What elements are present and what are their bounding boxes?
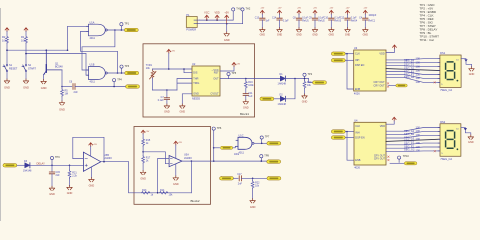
- nand gate U1B: [87, 64, 108, 84]
- test point circle TP9: [50, 156, 60, 165]
- wire R21 to gnd: [69, 178, 71, 185]
- svg-text:DSP EN: DSP EN: [355, 136, 364, 139]
- power VDD tap: [214, 11, 219, 21]
- connector P1 POWER: [186, 13, 199, 32]
- resistor R14: [160, 189, 174, 197]
- ground below R5: [59, 101, 65, 112]
- wire Q1 emitter to gnd: [43, 75, 45, 80]
- ground below Q1: [41, 80, 47, 91]
- svg-text:1N4148: 1N4148: [278, 83, 287, 86]
- wire R5 to gnd: [61, 97, 63, 101]
- ground below C11: [243, 100, 249, 110]
- ground below S1: [4, 79, 10, 90]
- svg-text:U1B: U1B: [90, 64, 95, 67]
- svg-text:TP4: TP4: [117, 78, 122, 81]
- svg-text:+5V: +5V: [178, 142, 182, 144]
- svg-text:0.1uF: 0.1uF: [351, 18, 357, 20]
- digit eight DS2: [446, 131, 459, 151]
- svg-text:+5V: +5V: [236, 63, 240, 65]
- wire U3 enable loop: [346, 53, 354, 89]
- svg-text:POWER: POWER: [186, 28, 196, 32]
- junction U1B out tp: [121, 72, 123, 74]
- capacitor C4 decoupling: [359, 8, 377, 37]
- wire divider mid: [142, 146, 144, 155]
- svg-text:+5V: +5V: [346, 8, 350, 10]
- svg-text:RefU4: RefU4: [351, 21, 358, 23]
- wire S2 to gnd: [25, 72, 27, 79]
- net label pill to gate C: [220, 146, 232, 149]
- power VCC arrow U3: [386, 45, 396, 52]
- svg-text:GND: GND: [180, 111, 186, 114]
- svg-text:7SEG_CA: 7SEG_CA: [440, 88, 452, 92]
- svg-text:100: 100: [416, 60, 421, 64]
- op-amp U5A: [169, 154, 192, 167]
- ground below U5B: [89, 178, 95, 188]
- svg-text:1N4148: 1N4148: [23, 169, 32, 172]
- net label pill X10 at U3: [389, 84, 408, 87]
- svg-text:+5V: +5V: [145, 131, 149, 133]
- wire 555 VCC pin: [220, 66, 234, 71]
- net label pill RST to U3: [331, 59, 353, 63]
- svg-text:GND: GND: [4, 86, 10, 90]
- junction base node: [61, 86, 63, 88]
- svg-text:NE555: NE555: [192, 97, 200, 101]
- junction U1A out tp: [121, 29, 123, 31]
- svg-text:100: 100: [416, 129, 421, 133]
- wire segment D dark U4: [386, 139, 440, 141]
- ground below S2: [23, 79, 29, 90]
- test point circle TP5: [227, 72, 237, 78]
- block frame Block1: [143, 44, 255, 117]
- display DS2 pin stubs: [438, 128, 440, 151]
- svg-text:GND: GND: [345, 33, 351, 36]
- svg-text:4011: 4011: [90, 81, 96, 84]
- op-amp U5B: [83, 152, 112, 171]
- wire U4 enable loop: [346, 131, 354, 161]
- junction R21 node: [69, 165, 71, 167]
- svg-text:100k: 100k: [248, 84, 254, 87]
- svg-text:GND: GND: [49, 193, 55, 196]
- test point circle on rail 1: [232, 8, 242, 21]
- svg-text:START: START: [28, 67, 36, 70]
- capacitor C10 decoupling: [324, 8, 342, 37]
- svg-text:100: 100: [416, 80, 421, 84]
- wire U1A output: [107, 29, 124, 31]
- svg-text:7SEG_CA: 7SEG_CA: [440, 157, 452, 161]
- svg-text:+5V: +5V: [363, 8, 367, 10]
- ground below R22: [250, 199, 256, 209]
- junction vcc rail: [168, 68, 170, 70]
- junction out node: [213, 160, 215, 162]
- pin x marks U4: [388, 156, 390, 161]
- net label pill CLK10 out: [390, 162, 417, 165]
- svg-text:GND: GND: [260, 33, 266, 36]
- svg-text:ENB: ENB: [355, 159, 360, 162]
- svg-text:C12: C12: [340, 18, 345, 20]
- svg-text:100: 100: [416, 72, 421, 76]
- wire node S1 horizontal: [7, 49, 68, 51]
- wire OUT to diode D1: [255, 78, 281, 80]
- wire R17 to gnd: [142, 164, 144, 171]
- svg-text:TP9: TP9: [55, 156, 60, 159]
- svg-text:INH: INH: [355, 132, 360, 135]
- svg-text:U1C: U1C: [239, 135, 244, 138]
- svg-text:ENB: ENB: [355, 88, 360, 91]
- resistor R15: [142, 138, 151, 146]
- wire D1 to node: [286, 78, 309, 80]
- resistor R17: [142, 156, 151, 164]
- junction DIS: [183, 68, 185, 70]
- svg-text:4011: 4011: [239, 151, 245, 154]
- svg-text:VCC: VCC: [204, 11, 209, 14]
- wire divider to op-amp plus: [143, 152, 169, 164]
- svg-text:100: 100: [416, 64, 421, 68]
- svg-text:+5V: +5V: [93, 144, 97, 146]
- power VCC tap: [204, 11, 209, 21]
- svg-text:2nF: 2nF: [74, 91, 79, 94]
- svg-text:100: 100: [416, 137, 421, 141]
- svg-text:GND: GND: [67, 192, 73, 195]
- svg-text:GND: GND: [312, 33, 318, 36]
- svg-text:C10: C10: [324, 18, 329, 20]
- svg-text:VDD: VDD: [380, 125, 385, 128]
- junction on TRIG wire: [113, 86, 115, 88]
- svg-text:THR: THR: [193, 77, 198, 80]
- svg-text:CLK: CLK: [355, 53, 360, 56]
- capacitor C6: [62, 81, 78, 95]
- junction Q1 collector: [46, 49, 48, 51]
- svg-text:GND: GND: [296, 33, 302, 36]
- junction U1B out feedback: [117, 72, 119, 74]
- svg-text:GND: GND: [140, 177, 146, 180]
- svg-text:0.1uF: 0.1uF: [302, 18, 308, 20]
- trimmer TVR1: [146, 64, 156, 79]
- svg-text:100: 100: [416, 68, 421, 72]
- junction node to gate A: [67, 49, 69, 51]
- svg-text:2nF: 2nF: [238, 182, 243, 185]
- wire power rail 2: [200, 23, 243, 25]
- svg-text:10k: 10k: [2, 38, 7, 42]
- svg-text:U2: U2: [192, 62, 196, 66]
- svg-text:1N4148: 1N4148: [278, 103, 287, 106]
- svg-text:4011: 4011: [90, 37, 96, 40]
- svg-text:+5V: +5V: [297, 8, 301, 10]
- net name labels segs U4: [404, 129, 415, 152]
- svg-text:10k: 10k: [21, 38, 26, 42]
- test point legend text: [420, 3, 440, 42]
- svg-text:+5V: +5V: [171, 50, 175, 52]
- power VCC arrow over R2: [5, 28, 9, 32]
- net name labels segs U3: [404, 58, 415, 79]
- svg-text:GND: GND: [302, 101, 308, 104]
- svg-text:GND: GND: [277, 33, 283, 36]
- nand gate U1A: [87, 21, 108, 39]
- capacitor C15: [49, 165, 60, 186]
- svg-text:DS2: DS2: [440, 120, 446, 124]
- svg-text:VDD: VDD: [379, 53, 384, 56]
- pin number labels DS1: [416, 57, 421, 85]
- digit eight DS1: [446, 62, 459, 82]
- wire THR TRIG pins: [177, 79, 192, 91]
- svg-text:Block2: Block2: [191, 199, 200, 203]
- capacitor C8 decoupling: [293, 8, 310, 37]
- junction OUT RC: [245, 78, 247, 80]
- switch S2: [22, 64, 36, 71]
- ground below divider: [140, 170, 146, 180]
- svg-text:RefU1: RefU1: [302, 21, 309, 23]
- net label pill CLK to U3: [331, 52, 353, 56]
- net label pill X10: [267, 160, 281, 164]
- pin number labels DS2: [416, 125, 421, 152]
- junction diode node: [294, 78, 296, 80]
- wire C6 to TRIG pill: [75, 86, 126, 88]
- wire D3 to op-amp: [30, 164, 84, 166]
- power VCC arrow U4: [386, 117, 396, 124]
- net label pill TRIG: [126, 85, 140, 89]
- svg-text:TP5: TP5: [232, 72, 237, 75]
- svg-text:100: 100: [416, 125, 421, 129]
- test point circle TP10: [398, 155, 410, 162]
- svg-text:100: 100: [416, 145, 421, 149]
- wire U1B output: [107, 72, 124, 74]
- svg-text:GND: GND: [363, 33, 369, 36]
- transistor Q1: [44, 50, 64, 74]
- resistor R10: [303, 78, 312, 89]
- wire U5B output: [101, 161, 129, 163]
- power VCC arrow at 555: [232, 63, 241, 67]
- svg-text:GND: GND: [164, 111, 170, 114]
- svg-text:R13: R13: [142, 189, 147, 192]
- ic U4 4026 counter: [354, 119, 386, 170]
- svg-text:R14: R14: [160, 189, 165, 192]
- net label pill DELAY in: [3, 164, 17, 168]
- wire 555 OUT: [220, 78, 255, 80]
- svg-text:INH: INH: [355, 59, 360, 62]
- test point circle TP8: [260, 154, 270, 162]
- capacitor C17 series: [237, 173, 242, 186]
- svg-text:DSP EN: DSP EN: [355, 64, 364, 67]
- svg-text:TP6: TP6: [217, 127, 222, 130]
- wire Q1 base to node: [61, 70, 63, 87]
- svg-text:RefU2: RefU2: [318, 21, 325, 23]
- svg-text:C17: C17: [237, 173, 242, 176]
- svg-text:100: 100: [416, 76, 421, 80]
- ground below C7: [164, 104, 170, 114]
- svg-text:+5V: +5V: [260, 8, 264, 10]
- wire D2 up to node: [286, 79, 296, 99]
- net label pill BL: [267, 142, 281, 146]
- net label pill Q: [124, 28, 138, 32]
- resistor R22: [251, 178, 260, 188]
- svg-text:+5V: +5V: [224, 11, 229, 14]
- svg-text:TP3: TP3: [125, 65, 130, 68]
- wire step row: [234, 177, 239, 179]
- wire 555 GND pin: [182, 94, 192, 104]
- svg-text:TP1: TP1: [124, 22, 129, 25]
- test point circle TP7: [260, 136, 270, 144]
- svg-text:1uF: 1uF: [248, 95, 253, 98]
- test point circle TH1: [120, 22, 130, 30]
- wire R22 to gnd: [252, 189, 254, 199]
- svg-text:TH2: TH2: [246, 8, 251, 11]
- net label pill STEP left: [220, 177, 234, 181]
- display DS1 pin stubs: [438, 59, 440, 83]
- ic U2 NE555: [192, 62, 220, 100]
- junction U1A out feedback: [114, 29, 116, 31]
- net label pill QB: [125, 71, 139, 75]
- svg-text:4026: 4026: [354, 166, 360, 170]
- svg-text:CVOLT: CVOLT: [211, 93, 220, 96]
- capacitor C7 timing: [158, 90, 170, 104]
- svg-text:GND: GND: [23, 86, 29, 90]
- capacitor C12 decoupling: [340, 8, 358, 37]
- svg-text:DELAY: DELAY: [37, 162, 46, 166]
- junction S2 node: [25, 53, 27, 55]
- svg-text:100: 100: [416, 149, 421, 153]
- switch S1: [3, 64, 18, 71]
- wire U5B to gnd: [90, 167, 92, 178]
- net label pill CLK10 to U4: [331, 130, 354, 134]
- svg-text:BC548: BC548: [55, 66, 63, 69]
- wire RC node horizontal: [153, 89, 178, 91]
- svg-text:1000pF: 1000pF: [369, 15, 377, 17]
- resistor R21: [68, 165, 78, 178]
- svg-text:RST: RST: [214, 72, 219, 75]
- power VCC arrow over R1: [24, 28, 28, 32]
- svg-text:RefC1: RefC1: [369, 21, 376, 23]
- svg-text:100: 100: [416, 133, 421, 137]
- power VCC arrow U5A: [174, 141, 183, 158]
- ground below R21: [67, 186, 73, 196]
- svg-text:1M: 1M: [65, 93, 68, 96]
- ground below power rail: [224, 24, 230, 43]
- left page edge line: [0, 8, 2, 221]
- junction U5B out: [103, 161, 105, 163]
- wire U4 segment outputs: [386, 128, 440, 152]
- svg-text:GND: GND: [41, 86, 47, 90]
- nand gate U1C: [236, 135, 254, 155]
- svg-text:SEG_G2: SEG_G2: [404, 148, 415, 152]
- svg-text:Block1: Block1: [240, 112, 249, 116]
- wire pill to diode D2: [274, 98, 281, 100]
- ground below 555: [180, 104, 186, 114]
- svg-text:0.1uF: 0.1uF: [158, 100, 164, 102]
- ic U3 4026 counter: [354, 46, 386, 95]
- capacitor C14 decoupling: [272, 8, 289, 37]
- svg-text:DS1: DS1: [440, 51, 446, 55]
- test point circle TP4: [113, 78, 123, 86]
- svg-text:OUT: OUT: [213, 77, 219, 80]
- wire R10 to gnd: [304, 89, 306, 94]
- svg-text:CRY OUT: CRY OUT: [374, 158, 386, 161]
- net label pill CLK: [313, 81, 327, 85]
- wire to CLK pill: [309, 79, 313, 83]
- svg-text:GND: GND: [243, 106, 249, 109]
- ground below U5A: [173, 176, 179, 186]
- block frame Block2: [134, 127, 211, 205]
- diode D2: [278, 94, 287, 106]
- resistor R13: [142, 189, 154, 197]
- svg-text:TP2: TP2: [308, 73, 313, 76]
- display DS2 power wires: [461, 128, 471, 136]
- svg-text:C13: C13: [255, 18, 260, 20]
- wire DIS pin: [184, 69, 192, 73]
- ground DS2: [468, 135, 474, 144]
- svg-text:VDD: VDD: [214, 11, 219, 14]
- wire U5A output exits block: [182, 160, 267, 162]
- svg-text:U1A: U1A: [90, 21, 95, 24]
- display DS1 power wires: [461, 59, 471, 67]
- wire trimmer down: [152, 78, 154, 90]
- svg-text:CLK: CLK: [355, 125, 360, 128]
- test point circle TP: [303, 73, 313, 79]
- svg-text:RefU3: RefU3: [335, 21, 342, 23]
- resistor R16: [244, 79, 254, 89]
- svg-text:2nF: 2nF: [56, 174, 61, 177]
- test point circle TP6: [212, 127, 222, 161]
- capacitor C9 decoupling: [309, 8, 326, 37]
- diode D3: [23, 160, 32, 172]
- svg-text:TP10: TP10: [403, 155, 410, 158]
- wire to gate B input 2: [86, 54, 89, 76]
- wire minus input: [158, 159, 170, 193]
- wire U1C output: [254, 142, 267, 144]
- wire S1 to gnd: [6, 72, 8, 79]
- wire U5A to gnd: [175, 164, 177, 176]
- svg-text:TRIG: TRIG: [193, 82, 199, 85]
- wire to gate pill: [214, 147, 220, 149]
- test point circle TP3: [120, 65, 130, 73]
- wire feedback A out to B in: [82, 30, 115, 70]
- svg-text:GND: GND: [250, 206, 256, 209]
- svg-text:GND: GND: [59, 107, 65, 111]
- junction step node: [252, 178, 254, 180]
- pin x marks U3: [387, 83, 389, 88]
- power VCC arrow U5B: [89, 143, 98, 157]
- display DS1: [434, 51, 461, 92]
- ground below C15: [49, 186, 55, 196]
- resistor R1: [21, 32, 27, 44]
- svg-text:4026: 4026: [354, 92, 360, 96]
- svg-text:+5V: +5V: [313, 8, 317, 10]
- svg-text:U3: U3: [354, 46, 358, 50]
- diode D1: [278, 73, 287, 85]
- svg-text:100: 100: [416, 141, 421, 145]
- junction divider: [142, 151, 144, 153]
- svg-text:TP8: TP8: [264, 154, 269, 157]
- svg-text:RESET: RESET: [9, 67, 18, 70]
- svg-text:SEG_G1: SEG_G1: [404, 75, 415, 79]
- wire cap to pill: [241, 177, 267, 179]
- wire pill to gate C: [233, 146, 238, 148]
- capacitor C11: [243, 89, 253, 100]
- junction RC node: [166, 89, 168, 91]
- svg-text:GND: GND: [89, 185, 95, 188]
- junction U5A out: [191, 160, 193, 162]
- wire feedback loop U5B: [73, 137, 104, 161]
- wire feedback U5A: [190, 161, 192, 193]
- svg-text:GND: GND: [468, 141, 474, 144]
- svg-text:GND: GND: [173, 183, 179, 186]
- svg-text:LM293: LM293: [104, 157, 112, 160]
- svg-text:GND: GND: [224, 38, 230, 42]
- svg-text:GND: GND: [329, 33, 335, 36]
- power +5V tap: [224, 11, 229, 24]
- svg-text:TP7: TP7: [265, 136, 270, 139]
- net label pill STEP right: [267, 177, 281, 181]
- svg-text:2.2k: 2.2k: [72, 174, 77, 177]
- wire gain network bottom: [134, 192, 191, 194]
